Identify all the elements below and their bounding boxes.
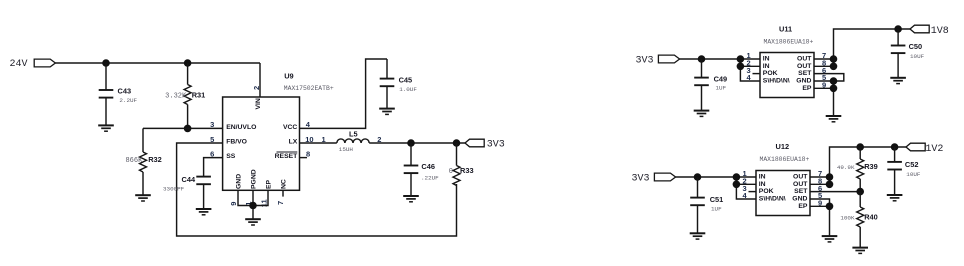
svg-text:MAX1806EUA18+: MAX1806EUA18+ [764,38,814,45]
wire U12 GND link [810,199,830,236]
op-amp U9 [210,72,334,191]
wire NC stub [282,190,284,196]
svg-text:OUT: OUT [797,63,812,70]
ground R32 [135,195,151,201]
svg-text:0: 0 [449,168,453,176]
wire FB/VO loop [177,143,457,236]
resistor R39 [837,147,878,192]
wire U12 SET [810,191,860,193]
op-amp U12 [743,142,823,216]
svg-text:15UH: 15UH [339,146,354,153]
svg-text:7: 7 [276,201,285,205]
ground C51 [690,233,706,239]
svg-text:IN: IN [763,63,770,70]
wire 3V3 to U12 [676,176,756,178]
svg-text:S\H\D\N\: S\H\D\N\ [763,78,790,85]
wire LX output [369,142,465,144]
wire SS [204,158,223,177]
svg-text:EN/UVLO: EN/UVLO [226,124,256,131]
node C49 junction [698,55,706,63]
wire U11 OUT7 [814,58,834,60]
node PGND junction [249,202,257,210]
ground U9 [245,219,261,225]
wire U12 pin3 stub [749,191,757,193]
svg-text:SET: SET [798,70,812,77]
svg-text:IN: IN [759,174,766,181]
svg-text:3300PF: 3300PF [163,185,185,192]
svg-text:POK: POK [759,188,774,195]
capacitor C50 [891,29,925,78]
svg-text:GND: GND [236,174,243,189]
ground C43 [98,125,114,131]
node U11 OUT8 [830,63,838,71]
svg-text:OUT: OUT [797,56,812,63]
ground C52 [887,195,903,201]
svg-text:SS: SS [226,153,236,160]
svg-text:R31: R31 [192,91,206,100]
svg-text:C52: C52 [905,160,919,169]
wire U12 OUT7 [810,176,830,178]
wire U11 output riser [834,29,911,66]
resistor R40 [840,192,877,248]
svg-text:24V: 24V [10,59,28,70]
wire RESET stub [300,157,308,159]
wire U11 ground drop [833,81,835,116]
port 1V2 [906,143,943,155]
svg-text:C50: C50 [909,42,923,51]
ground R40 [852,248,868,254]
wire U11 EP [814,87,834,89]
svg-text:GND: GND [796,78,811,85]
wire U11 pin2 [740,65,760,67]
wire LX [300,142,337,144]
wire U12 EP [810,205,830,207]
ground C44 [196,209,212,215]
svg-text:9: 9 [229,202,238,206]
svg-text:C49: C49 [714,74,728,83]
capacitor C51 [690,177,723,233]
ground U11 [826,116,842,122]
svg-text:1V2: 1V2 [925,144,943,155]
svg-text:GND: GND [792,196,807,203]
node C46 junction [407,139,415,147]
wire U12 OUT8 [810,183,830,185]
wire U12 pin2 [736,183,756,185]
wire U11 input bus [740,59,760,81]
node U12 OUT8 [826,181,834,189]
ground C50 [890,78,906,84]
svg-text:IN: IN [759,181,766,188]
svg-text:U9: U9 [284,72,293,81]
wire U12 output riser [830,147,907,184]
svg-text:100K: 100K [840,215,855,222]
svg-text:EP: EP [266,179,273,189]
svg-text:R33: R33 [460,166,474,175]
svg-text:U12: U12 [776,142,790,151]
node C52 junction [891,143,899,151]
svg-text:3: 3 [210,120,214,129]
svg-text:NC: NC [281,179,288,189]
svg-text:RESET: RESET [275,153,299,160]
capacitor C52 [887,147,921,195]
svg-text:PGND: PGND [251,169,258,189]
ground U12 [822,236,838,242]
port 24V [10,59,56,70]
svg-text:C46: C46 [421,162,435,171]
wire VIN drop [259,63,261,97]
svg-text:866K: 866K [125,157,143,165]
node C51 junction [694,173,702,181]
svg-text:IN: IN [763,56,770,63]
svg-text:EP: EP [798,203,808,210]
node R39 top junction [856,143,864,151]
svg-text:MAX17502EATB+: MAX17502EATB+ [284,85,334,92]
svg-text:L5: L5 [349,129,358,138]
svg-text:EP: EP [802,85,812,92]
svg-text:49.9K: 49.9K [837,164,855,171]
capacitor C43 [99,63,138,125]
wire U12 input bus [736,177,756,199]
port 3V3 U12 [632,173,676,185]
node C50 junction [894,25,902,33]
resistor R31 [165,63,205,128]
node U11 GND [830,77,838,85]
svg-text:2: 2 [252,86,261,90]
svg-text:FB/VO: FB/VO [226,139,247,146]
wire PGND drop [252,190,254,219]
wire U11 pin3 stub [753,73,761,75]
svg-text:C44: C44 [182,175,196,184]
node R33 junction [453,139,461,147]
port 3V3 U11 [636,55,680,67]
capacitor C46 [404,143,439,196]
svg-text:OUT: OUT [793,174,808,181]
svg-text:3.32K: 3.32K [165,93,187,101]
ground C49 [694,111,710,117]
svg-text:SET: SET [794,188,808,195]
wire U11 OUT8 [814,65,834,67]
node 24V junction C43 [102,59,110,67]
capacitor C49 [694,59,727,111]
op-amp U11 [747,24,827,97]
node U12 OUT7 [826,173,834,181]
node R31 top junction [184,59,192,67]
wire GND/PGND/EP bus [238,190,268,205]
svg-text:1UF: 1UF [711,206,722,213]
svg-text:C43: C43 [118,86,132,95]
node U11 OUT7 [830,55,838,63]
svg-text:VIN: VIN [255,98,262,109]
svg-text:6: 6 [210,149,214,158]
svg-text:POK: POK [763,70,778,77]
svg-text:.22UF: .22UF [421,175,439,182]
svg-text:10UF: 10UF [910,53,925,60]
capacitor C45 [380,59,418,109]
svg-text:1UF: 1UF [716,85,727,92]
svg-text:MAX1806EUA18+: MAX1806EUA18+ [760,156,810,163]
svg-text:2.2UF: 2.2UF [119,97,137,104]
node SET junction [856,188,864,196]
node U12 pin1 [733,173,741,181]
svg-text:LX: LX [289,139,298,146]
resistor R33 [449,143,474,186]
node U11 pin2 [737,63,745,71]
svg-text:1.0UF: 1.0UF [399,86,417,93]
port 3V3 output [465,139,505,150]
svg-text:U11: U11 [779,24,792,33]
ground C45 [379,109,395,115]
svg-text:R39: R39 [864,162,878,171]
wire VCC [300,59,388,128]
svg-text:5: 5 [210,135,214,144]
svg-text:VCC: VCC [283,124,297,131]
wire 24V rail [55,62,260,64]
node EN/UVLO junction [184,125,192,133]
node U11 EP [830,85,838,93]
capacitor C44 [163,175,211,209]
svg-text:3V3: 3V3 [632,174,650,185]
node U11 pin1 [737,55,745,63]
inductor L5 [337,129,382,153]
wire 3V3 to U11 [680,58,760,60]
wire U11 SET link [814,74,844,81]
port 1V8 [910,25,949,37]
resistor R32 [125,128,161,195]
svg-text:10UF: 10UF [906,171,921,178]
ground C46 [403,196,419,202]
svg-text:R32: R32 [148,155,162,164]
svg-text:OUT: OUT [793,181,808,188]
svg-text:3V3: 3V3 [636,56,654,67]
node U12 EP [826,203,834,211]
svg-text:C51: C51 [710,195,724,204]
svg-text:1V8: 1V8 [931,26,949,37]
node U12 pin2 [733,181,741,189]
svg-text:S\H\D\N\: S\H\D\N\ [759,196,786,203]
svg-text:3V3: 3V3 [487,140,505,151]
svg-text:R40: R40 [864,213,878,222]
svg-text:C45: C45 [399,75,413,84]
wire EN/UVLO [143,127,223,129]
